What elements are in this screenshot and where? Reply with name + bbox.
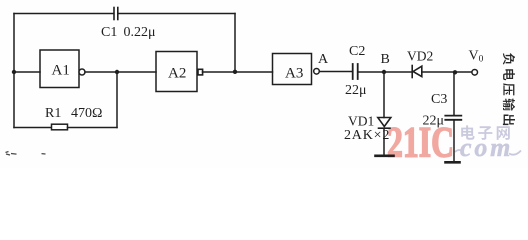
- label VD2: [407, 49, 433, 64]
- svg-text:R1: R1: [45, 106, 61, 121]
- amplifier A3: [273, 54, 312, 85]
- svg-text:A: A: [318, 52, 329, 67]
- node junction R1 feedback top: [115, 70, 119, 74]
- wire C2 to VD2: [359, 71, 412, 73]
- wire R1 feedback vertical: [116, 72, 118, 128]
- svg-text:22μ: 22μ: [345, 83, 367, 98]
- capacitor C2: [353, 64, 358, 79]
- label A3: [285, 66, 303, 82]
- label C3 value 22u: [423, 114, 445, 129]
- label C2: [349, 44, 365, 59]
- svg-text:A2: A2: [168, 66, 186, 82]
- wire feedback bottom left: [14, 127, 52, 129]
- svg-text:VD2: VD2: [407, 49, 433, 64]
- label VD1: [348, 114, 374, 129]
- svg-text:2AK×2: 2AK×2: [344, 128, 390, 143]
- label VD1 type 2AK x2: [344, 128, 390, 143]
- label node A: [318, 52, 329, 67]
- label node B: [381, 52, 390, 67]
- node junction C3 top: [453, 70, 457, 74]
- svg-text:0.22μ: 0.22μ: [124, 25, 156, 40]
- node junction A2 output net: [233, 70, 237, 74]
- diode VD2: [412, 66, 422, 78]
- label A2: [168, 66, 186, 82]
- node junction A1 input: [12, 70, 16, 74]
- terminal V0 bubble: [472, 70, 478, 76]
- label C1 0.22u: [101, 25, 156, 40]
- label C3: [431, 92, 447, 107]
- wire B down to VD1: [383, 72, 385, 118]
- svg-text:A1: A1: [52, 63, 70, 79]
- capacitor C3: [445, 116, 461, 120]
- terminal bar C3 bottom: [446, 161, 460, 164]
- svg-text:B: B: [381, 52, 390, 67]
- svg-text:V0: V0: [469, 49, 484, 65]
- svg-text:C3: C3: [431, 92, 447, 107]
- wire C3 to bottom terminal: [453, 120, 455, 162]
- label V0: [469, 49, 484, 65]
- wire A to C2: [320, 71, 353, 73]
- amplifier A1: [40, 50, 85, 88]
- svg-text:C1: C1: [101, 25, 117, 40]
- node A terminal bubble: [314, 69, 320, 75]
- svg-text:22μ: 22μ: [423, 114, 445, 129]
- terminal bar VD1 bottom: [376, 155, 394, 158]
- label R1 470ohm: [45, 106, 102, 121]
- wire V0 net down to C3: [453, 72, 455, 116]
- amplifier A2: [156, 52, 203, 92]
- watermark 21IC dianziwang com: [387, 120, 521, 167]
- noise speck mid: [42, 153, 46, 155]
- wire VD1 to bottom terminal: [383, 128, 385, 155]
- noise speck left: [6, 152, 17, 156]
- resistor R1: [52, 124, 68, 130]
- wire vertical from top rail to A2-A3 net: [234, 14, 236, 73]
- wire A1 input: [14, 71, 40, 73]
- svg-text:com: com: [460, 133, 513, 162]
- svg-text:VD1: VD1: [348, 114, 374, 129]
- wire top rail right: [119, 13, 236, 15]
- svg-text:470Ω: 470Ω: [71, 106, 102, 121]
- node B junction: [382, 70, 386, 74]
- wire feedback bottom right: [68, 127, 118, 129]
- wire left vertical rail: [13, 14, 15, 128]
- caption negative voltage output (vertical): [503, 53, 515, 125]
- diode VD1: [378, 118, 391, 129]
- wire A1 output to A2 input: [85, 71, 156, 73]
- label C2 value 22u: [345, 83, 367, 98]
- capacitor C1: [114, 8, 118, 20]
- wire top rail left: [14, 13, 114, 15]
- wire A2 output to A3 input: [203, 71, 273, 73]
- label A1: [52, 63, 70, 79]
- wire VD2 to V0: [422, 71, 472, 73]
- svg-text:A3: A3: [285, 66, 303, 82]
- svg-text:C2: C2: [349, 44, 365, 59]
